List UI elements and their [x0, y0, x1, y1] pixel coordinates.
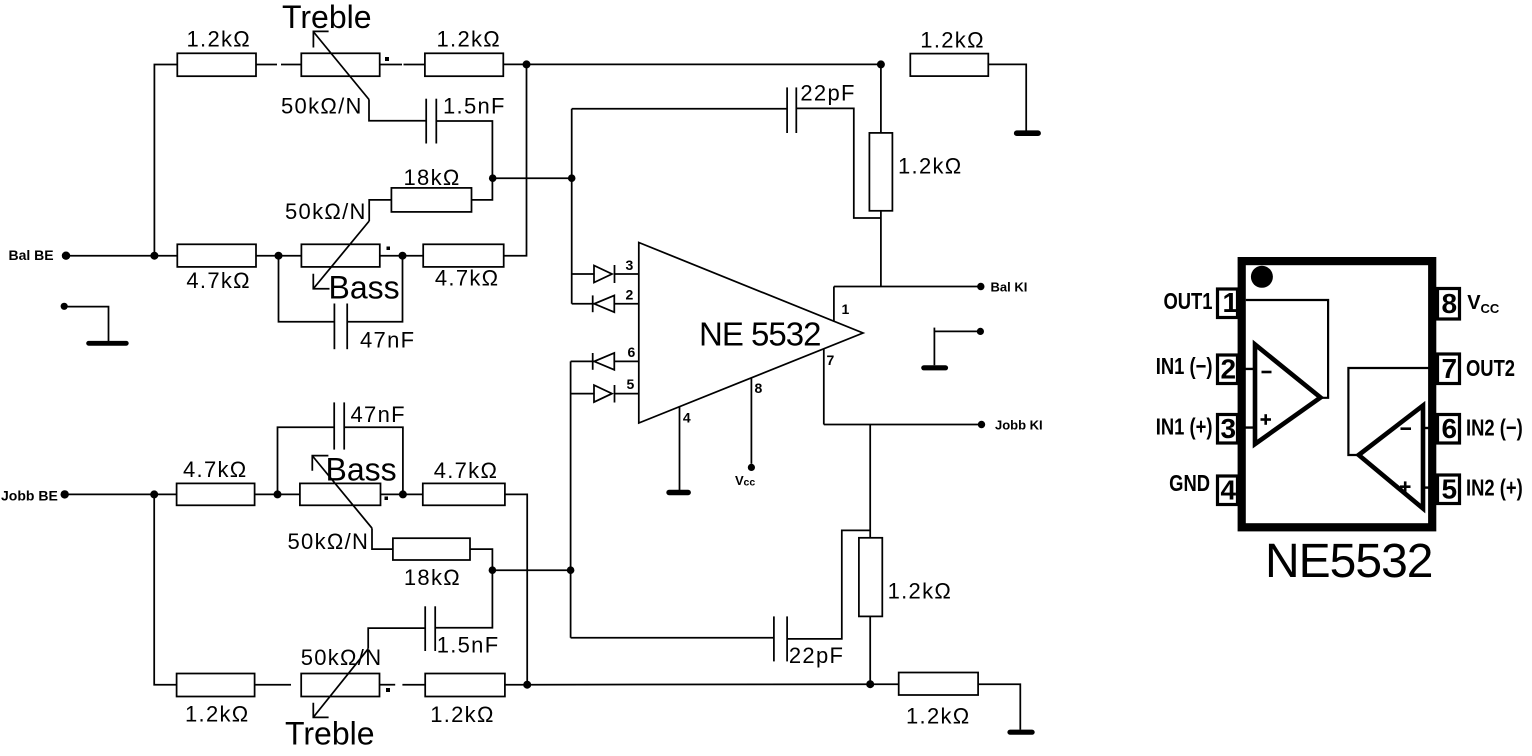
svg-text:50kΩ/N: 50kΩ/N: [301, 645, 383, 670]
value label R8: [404, 565, 461, 590]
svg-text:IN1 (+): IN1 (+): [1156, 415, 1213, 440]
diode D4 pin5: [594, 385, 639, 403]
wire pin8: [750, 378, 752, 464]
wire Jobb KI output: [824, 424, 981, 426]
IC package NE5532 body: [1242, 261, 1433, 527]
svg-text:6: 6: [628, 344, 636, 360]
wire node C to P2: [279, 255, 302, 257]
svg-text:1.2kΩ: 1.2kΩ: [906, 704, 971, 729]
svg-text:7: 7: [1442, 353, 1458, 384]
terminal dot Jobb KI: [978, 421, 985, 428]
diode D1 pin3: [594, 265, 639, 283]
wire C3 left leg: [278, 427, 335, 494]
label IN2 plus: [1466, 476, 1523, 501]
wire C6 left leg: [571, 637, 774, 639]
pin label 2: [626, 287, 634, 303]
svg-text:2: 2: [626, 287, 634, 303]
potentiometer P3 Bass lower 50k: [300, 483, 381, 505]
pin number 4: [1221, 475, 1237, 506]
label OUT2: [1466, 356, 1515, 381]
svg-text:4.7kΩ: 4.7kΩ: [434, 458, 499, 483]
label VCC: [1467, 292, 1500, 316]
wire R7 to right column lower: [505, 494, 527, 684]
node A junction dot: [489, 174, 497, 182]
wire top cap feed: [572, 108, 787, 110]
svg-text:4: 4: [1221, 475, 1237, 506]
label Bass lower: [326, 452, 397, 488]
wire bottom row to node I: [505, 684, 527, 686]
wire C3 right leg: [344, 427, 403, 494]
wire pin7: [823, 349, 825, 425]
svg-text:50kΩ/N: 50kΩ/N: [285, 199, 367, 224]
pin label 4: [683, 410, 691, 426]
svg-text:cc: cc: [744, 477, 756, 489]
pin number 5: [1442, 474, 1458, 505]
wire top row left corner: [154, 65, 177, 256]
svg-text:Bass: Bass: [326, 452, 397, 488]
pin box 4: [1218, 476, 1238, 505]
value label R13: [906, 704, 971, 729]
wire C1 right to node A: [436, 121, 492, 178]
value label R5: [435, 266, 500, 291]
op-amp B plus sign: [1400, 481, 1411, 492]
svg-text:1.2kΩ: 1.2kΩ: [187, 27, 252, 52]
wiper terminal dot P1: [385, 57, 389, 61]
wire node F to R7: [403, 493, 423, 495]
ground bar input: [86, 341, 129, 346]
pin number 7: [1442, 353, 1458, 384]
svg-text:4.7kΩ: 4.7kΩ: [183, 457, 248, 482]
value label R3: [404, 165, 461, 190]
pin box 7: [1438, 354, 1460, 384]
svg-text:22pF: 22pF: [789, 643, 844, 668]
pin number 1: [1223, 287, 1239, 318]
svg-text:22pF: 22pF: [800, 81, 855, 106]
wiper terminal dot P4: [386, 688, 390, 692]
wire pin6 lead: [571, 360, 595, 362]
junction dot left column lower: [150, 490, 158, 498]
svg-text:7: 7: [827, 352, 835, 368]
pin box 2: [1218, 355, 1238, 384]
wire pin2 internal: [1238, 368, 1257, 370]
resistor R4 4.7k: [177, 244, 256, 267]
wire node E to P3: [278, 493, 300, 495]
value label P2 50kOhm/N: [285, 199, 367, 224]
value label C1: [443, 94, 506, 119]
svg-text:50kΩ/N: 50kΩ/N: [288, 529, 370, 554]
wire R11 to ground: [988, 64, 1026, 130]
svg-text:V: V: [1467, 292, 1481, 314]
svg-text:8: 8: [1442, 288, 1458, 319]
node F junction dot: [399, 490, 407, 498]
pin label 1: [842, 301, 850, 317]
svg-text:2: 2: [1221, 354, 1237, 385]
terminal dot Bal KI: [977, 283, 984, 290]
value label C6: [789, 643, 844, 668]
wire pin4: [679, 406, 681, 490]
pin box 3: [1218, 415, 1238, 444]
diode D3 pin6: [593, 353, 639, 370]
label IN1 plus: [1156, 415, 1213, 440]
svg-text:Bal BE: Bal BE: [9, 247, 54, 263]
value label C5: [800, 81, 855, 106]
svg-text:4.7kΩ: 4.7kΩ: [186, 268, 251, 293]
wire R4 to node C: [256, 255, 279, 257]
input terminal dot Bal BE: [62, 252, 70, 260]
svg-text:47nF: 47nF: [351, 402, 406, 427]
node E junction dot: [274, 490, 282, 498]
wire R1 to P1: [256, 64, 301, 66]
svg-text:CC: CC: [1481, 301, 1500, 316]
wire long top to feedback node: [527, 63, 881, 65]
value label R4: [186, 268, 251, 293]
wire R10 top: [880, 64, 882, 132]
op-amp B triangle: [1359, 406, 1423, 509]
wire left column down to bottom row: [154, 494, 176, 684]
wire node to R13: [870, 683, 899, 685]
op-amp A triangle: [1255, 345, 1321, 445]
label OUT1: [1163, 289, 1212, 314]
label Bal KI: [991, 280, 1028, 295]
wire C5 right to R10 bottom: [796, 108, 881, 218]
resistor R2 1.2k: [425, 53, 503, 76]
svg-text:50kΩ/N: 50kΩ/N: [281, 94, 363, 119]
svg-text:Treble: Treble: [285, 716, 375, 752]
wire R10 bottom to Bal KI: [880, 211, 882, 287]
value label R12: [888, 579, 953, 604]
svg-text:6: 6: [1442, 413, 1458, 444]
wire to R6: [154, 493, 176, 495]
svg-text:18kΩ: 18kΩ: [404, 565, 461, 590]
wire op-amp input column upper: [571, 109, 573, 304]
svg-text:8: 8: [755, 380, 763, 396]
resistor R9R 1.2k bottom: [425, 674, 505, 697]
svg-text:IN1 (−): IN1 (−): [1156, 354, 1213, 379]
wire pin5 lead: [571, 393, 594, 395]
wire op-amp input column lower: [570, 361, 572, 637]
wire R5 to right column: [504, 64, 527, 255]
value label R10: [898, 154, 963, 179]
svg-text:4: 4: [683, 410, 691, 426]
wire R2 to node: [503, 63, 526, 65]
pin number 3: [1221, 413, 1237, 444]
pin label 8: [755, 380, 763, 396]
label IN2 minus: [1466, 416, 1523, 441]
node G junction dot: [489, 566, 497, 574]
pin number 2: [1221, 354, 1237, 385]
wire R3 right to node A: [472, 178, 493, 200]
wire pin6 internal: [1422, 427, 1438, 429]
wire Jobb KI down to R12: [869, 425, 871, 538]
svg-text:1.2kΩ: 1.2kΩ: [430, 702, 495, 727]
wire node A to op-amp column: [493, 177, 572, 179]
wire R13 to ground: [978, 684, 1020, 730]
wiper arrow P2: [313, 221, 369, 289]
label Treble top: [282, 0, 372, 35]
ground stub terminal dot: [61, 303, 68, 310]
label Treble lower: [285, 716, 375, 752]
value label R9L: [185, 702, 250, 727]
pin1 marker dot: [1251, 266, 1273, 288]
wire pin1: [833, 287, 835, 322]
node B junction dot: [568, 174, 576, 182]
svg-text:1.5nF: 1.5nF: [437, 633, 500, 658]
pin label 3: [626, 257, 634, 273]
node H junction dot: [567, 566, 575, 574]
label Vcc: [735, 473, 755, 489]
op-amp A plus sign: [1261, 414, 1272, 425]
svg-text:Treble: Treble: [282, 0, 372, 35]
resistor R3 18k: [391, 188, 471, 212]
label GND: [1169, 471, 1210, 496]
svg-text:47nF: 47nF: [360, 328, 415, 353]
svg-text:18kΩ: 18kΩ: [404, 165, 461, 190]
svg-text:1: 1: [842, 301, 850, 317]
svg-text:NE5532: NE5532: [1265, 535, 1432, 588]
potentiometer P1 Treble 50k: [301, 53, 379, 76]
resistor R10 1.2k vertical top: [869, 133, 892, 211]
label NE5532 caption: [1265, 535, 1432, 588]
svg-text:1.2kΩ: 1.2kΩ: [898, 154, 963, 179]
resistor R7 4.7k lower right: [423, 483, 505, 505]
value label R7: [434, 458, 499, 483]
label Bass top: [329, 270, 400, 306]
label Bal BE: [9, 247, 54, 263]
node I junction dot: [523, 681, 531, 689]
pin label 5: [627, 376, 635, 392]
wire R8 right to node G: [470, 549, 492, 570]
resistor R6 4.7k lower: [177, 483, 255, 505]
resistor R12 1.2k vertical bottom: [859, 538, 882, 617]
svg-text:1.2kΩ: 1.2kΩ: [185, 702, 250, 727]
value label R6: [183, 457, 248, 482]
svg-text:5: 5: [1442, 474, 1458, 505]
capacitor C2 47nF plates: [334, 304, 347, 350]
pin box 5: [1438, 475, 1460, 504]
wire ground stub: [64, 307, 108, 341]
wire P3 to node F: [381, 493, 403, 495]
diode D2 pin2: [593, 295, 639, 312]
value label C2: [360, 328, 415, 353]
svg-text:1: 1: [1223, 287, 1239, 318]
wire node D to R5: [403, 255, 424, 257]
wire bottom row left: [255, 684, 291, 686]
resistor R11 1.2k top-right: [910, 54, 988, 77]
node top right of R2: [523, 60, 531, 68]
wire P2 to node D: [380, 255, 403, 257]
wiper terminal dot P2: [387, 247, 391, 251]
wire pin5 internal: [1422, 486, 1438, 488]
svg-text:IN2 (+): IN2 (+): [1466, 476, 1523, 501]
svg-text:Jobb KI: Jobb KI: [995, 418, 1043, 433]
wire bass wiper to R3: [369, 200, 391, 221]
value label C3: [351, 402, 406, 427]
ground bar top right: [1014, 130, 1041, 136]
svg-text:Bal KI: Bal KI: [991, 280, 1028, 295]
wire C6 right to R12 top: [787, 530, 870, 639]
wiper arrow P1: [313, 31, 426, 120]
svg-text:NE 5532: NE 5532: [699, 316, 820, 353]
svg-text:5: 5: [627, 376, 635, 392]
svg-text:1.2kΩ: 1.2kΩ: [888, 579, 953, 604]
value label P3 50kOhm/N: [288, 529, 370, 554]
pin box 6: [1438, 415, 1460, 444]
svg-text:4.7kΩ: 4.7kΩ: [435, 266, 500, 291]
svg-text:IN2 (−): IN2 (−): [1466, 416, 1523, 441]
potentiometer P4 Treble lower 50k: [301, 674, 379, 697]
wire Jobb BE input: [65, 493, 155, 495]
wire C2 right leg: [347, 256, 402, 322]
resistor R1 1.2k top-left: [177, 53, 256, 76]
capacitor C1 1.5nF plates: [426, 99, 436, 144]
resistor R13 1.2k bottom-right: [899, 673, 978, 696]
value label P4 50kOhm/N: [301, 645, 383, 670]
junction dot left column mid: [150, 252, 158, 260]
capacitor C4 1.5nF lower plates: [425, 606, 435, 651]
potentiometer P2 Bass 50k: [301, 244, 379, 267]
value label P1 50kOhm/N: [281, 94, 363, 119]
value label R11: [920, 28, 985, 53]
svg-text:GND: GND: [1169, 471, 1210, 496]
node C junction dot: [275, 252, 283, 260]
pin number 6: [1442, 413, 1458, 444]
svg-text:1.2kΩ: 1.2kΩ: [920, 28, 985, 53]
node feedback bottom junction dot: [866, 680, 874, 688]
svg-text:1.5nF: 1.5nF: [443, 94, 506, 119]
label Jobb KI: [995, 418, 1043, 433]
capacitor C6 22pF lower plates: [774, 616, 787, 661]
value label C4: [437, 633, 500, 658]
svg-text:OUT1: OUT1: [1163, 289, 1212, 314]
input terminal dot Jobb BE: [60, 490, 68, 498]
value label R9R: [430, 702, 495, 727]
ground bar pin4: [666, 490, 691, 495]
wire R6 to node E: [255, 493, 278, 495]
wire P4 to R9R: [380, 684, 426, 686]
pin box 8: [1438, 289, 1460, 320]
wire Bal BE input: [66, 255, 154, 257]
wire mid ground: [934, 328, 980, 366]
Vcc terminal dot: [748, 464, 755, 471]
label IN1 minus: [1156, 354, 1213, 379]
wire long bottom to feedback node: [527, 683, 870, 686]
label Jobb BE: [1, 488, 58, 504]
value label R2: [437, 27, 502, 52]
svg-text:OUT2: OUT2: [1466, 356, 1515, 381]
value label R1: [187, 27, 252, 52]
pin box 1: [1218, 289, 1238, 318]
op-amp B minus sign: [1401, 427, 1412, 430]
wire pin2 lead: [572, 303, 595, 305]
wire R12 bottom: [869, 616, 871, 684]
pin number 8: [1442, 288, 1458, 319]
resistor R8 18k lower: [393, 538, 470, 560]
node feedback top junction dot: [877, 60, 885, 68]
terminal dot mid ground: [977, 328, 984, 335]
capacitor C3 47nF lower plates: [334, 402, 344, 449]
op-amp U1 triangle: [639, 243, 863, 424]
svg-text:3: 3: [626, 257, 634, 273]
pin label 7: [827, 352, 835, 368]
wire out1 to apex: [1246, 300, 1328, 398]
svg-text:Bass: Bass: [329, 270, 400, 306]
resistor R9L 1.2k bottom-left: [177, 674, 255, 697]
wire node G to node H: [492, 569, 570, 571]
node D junction dot: [399, 252, 407, 260]
wire out2 to apex: [1348, 368, 1436, 455]
resistor R5 4.7k: [423, 244, 504, 267]
wire Bal KI output: [834, 286, 981, 288]
wiper terminal dot P3: [385, 497, 389, 501]
wiper arrow P3: [312, 456, 393, 549]
label NE 5532: [699, 316, 820, 353]
wire C4 right leg: [435, 570, 492, 628]
wire to R4: [154, 255, 177, 257]
wiper arrow P4: [313, 649, 368, 718]
wire treble wiper to C4: [368, 628, 425, 649]
wire P1 to R2: [380, 64, 425, 66]
pin label 6: [628, 344, 636, 360]
ground bar bottom right: [1007, 730, 1034, 735]
svg-text:Jobb BE: Jobb BE: [1, 488, 58, 504]
op-amp A minus sign: [1262, 371, 1272, 374]
wire pin3 lead: [572, 273, 594, 275]
wire C2 left leg: [279, 256, 335, 322]
capacitor C5 22pF plates: [787, 87, 796, 133]
wire pin3 internal: [1238, 426, 1257, 428]
svg-text:3: 3: [1221, 413, 1237, 444]
svg-text:1.2kΩ: 1.2kΩ: [437, 27, 502, 52]
ground bar mid: [921, 365, 948, 370]
